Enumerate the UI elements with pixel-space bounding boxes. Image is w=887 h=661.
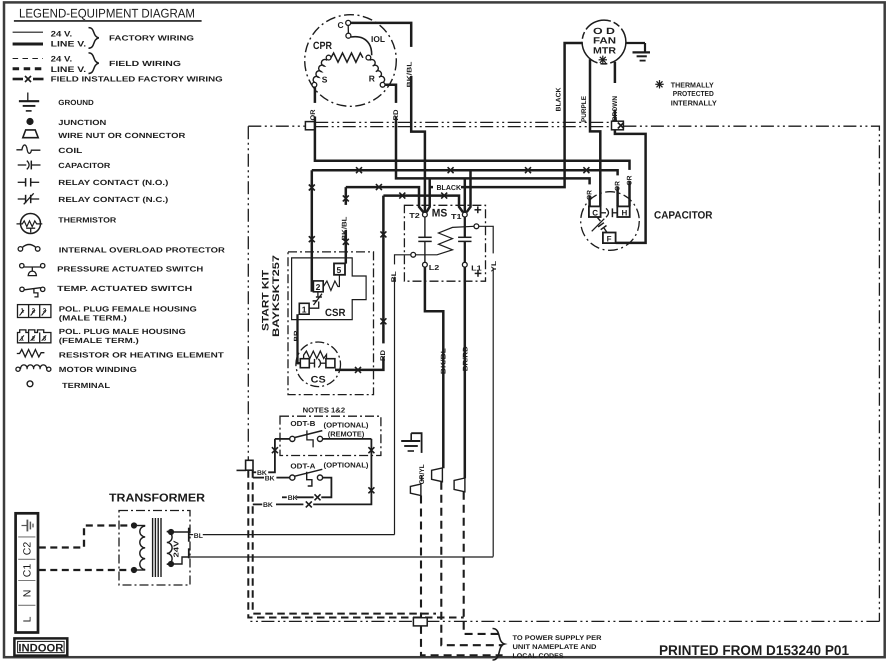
svg-text:TO POWER SUPPLY PER: TO POWER SUPPLY PER — [513, 635, 602, 642]
svg-text:(MALE TERM.): (MALE TERM.) — [59, 314, 128, 323]
svg-text:BK: BK — [265, 475, 275, 482]
svg-text:PURPLE: PURPLE — [581, 96, 588, 122]
svg-text:(REMOTE): (REMOTE) — [328, 429, 365, 438]
svg-text:THERMISTOR: THERMISTOR — [58, 215, 117, 224]
svg-text:24 V.: 24 V. — [51, 55, 72, 64]
svg-text:L2: L2 — [429, 263, 440, 272]
svg-text:FIELD WIRING: FIELD WIRING — [109, 59, 181, 68]
svg-text:2: 2 — [316, 282, 321, 292]
svg-text:BLACK: BLACK — [556, 87, 563, 111]
svg-text:BK/BL: BK/BL — [342, 217, 349, 241]
svg-text:GR/YL: GR/YL — [419, 464, 426, 484]
svg-text:COIL: COIL — [58, 146, 83, 155]
svg-text:FACTORY WIRING: FACTORY WIRING — [109, 33, 194, 42]
svg-text:MS: MS — [432, 208, 448, 220]
svg-text:PROTECTED: PROTECTED — [673, 89, 714, 98]
svg-text:2: 2 — [32, 335, 36, 342]
svg-text:N: N — [22, 590, 34, 598]
svg-text:PRESSURE ACTUATED SWITCH: PRESSURE ACTUATED SWITCH — [57, 265, 203, 274]
svg-text:(FEMALE TERM.): (FEMALE TERM.) — [59, 336, 140, 345]
svg-text:FIELD INSTALLED FACTORY WIRING: FIELD INSTALLED FACTORY WIRING — [51, 75, 223, 84]
svg-text:CPR: CPR — [313, 40, 332, 52]
svg-text:CAPACITOR: CAPACITOR — [654, 210, 713, 222]
svg-text:ODT-B: ODT-B — [290, 419, 315, 428]
svg-text:BL: BL — [391, 271, 398, 282]
svg-text:BK: BK — [263, 502, 273, 509]
svg-text:TERMINAL: TERMINAL — [62, 381, 111, 390]
svg-text:S: S — [322, 75, 328, 85]
svg-text:24V: 24V — [171, 540, 180, 557]
svg-text:UNIT NAMEPLATE AND: UNIT NAMEPLATE AND — [513, 644, 597, 651]
svg-text:OR: OR — [614, 181, 621, 191]
svg-text:(OPTIONAL): (OPTIONAL) — [324, 461, 370, 470]
svg-text:3: 3 — [43, 335, 47, 342]
svg-text:CS: CS — [311, 375, 326, 386]
svg-text:OR: OR — [626, 175, 633, 185]
svg-text:THERMALLY: THERMALLY — [671, 80, 714, 89]
svg-text:C: C — [592, 208, 598, 217]
svg-text:MTR: MTR — [593, 45, 617, 55]
svg-text:ODT-A: ODT-A — [290, 461, 315, 470]
svg-text:LEGEND-EQUIPMENT DIAGRAM: LEGEND-EQUIPMENT DIAGRAM — [19, 7, 195, 21]
svg-text:1: 1 — [21, 335, 25, 342]
svg-text:L1: L1 — [471, 264, 482, 273]
svg-text:1: 1 — [21, 307, 25, 314]
svg-text:CSR: CSR — [325, 307, 346, 319]
svg-text:RD: RD — [380, 350, 387, 361]
svg-text:C2: C2 — [22, 542, 34, 556]
svg-text:C1: C1 — [22, 564, 34, 578]
svg-text:FAN: FAN — [593, 36, 616, 46]
svg-text:R: R — [369, 74, 375, 84]
svg-text:3: 3 — [43, 307, 47, 314]
svg-text:GROUND: GROUND — [58, 98, 94, 107]
svg-text:OR: OR — [586, 190, 593, 200]
svg-text:24 V.: 24 V. — [51, 30, 72, 39]
svg-text:PRINTED FROM D153240 P01: PRINTED FROM D153240 P01 — [659, 642, 849, 658]
svg-text:RD: RD — [393, 109, 400, 120]
svg-text:INTERNAL OVERLOAD PROTECTOR: INTERNAL OVERLOAD PROTECTOR — [59, 246, 226, 255]
svg-text:BLACK: BLACK — [437, 183, 462, 192]
svg-text:YL: YL — [491, 261, 498, 272]
svg-text:BROWN: BROWN — [612, 96, 619, 121]
svg-text:POL. PLUG MALE HOUSING: POL. PLUG MALE HOUSING — [59, 327, 186, 336]
svg-text:H: H — [622, 208, 628, 217]
svg-text:OR: OR — [310, 109, 317, 120]
svg-text:LINE V.: LINE V. — [51, 65, 86, 74]
svg-text:T2: T2 — [409, 211, 420, 220]
svg-text:BAYKSKT257: BAYKSKT257 — [271, 255, 282, 337]
svg-text:RESISTOR OR HEATING ELEMENT: RESISTOR OR HEATING ELEMENT — [59, 351, 225, 360]
svg-text:TEMP. ACTUATED SWITCH: TEMP. ACTUATED SWITCH — [57, 284, 192, 293]
svg-text:INDOOR: INDOOR — [18, 643, 63, 655]
svg-text:2: 2 — [32, 307, 36, 314]
svg-text:LOCAL CODES: LOCAL CODES — [513, 653, 564, 660]
svg-text:BL: BL — [194, 533, 203, 540]
svg-text:5: 5 — [337, 265, 342, 275]
svg-text:START KIT: START KIT — [260, 270, 271, 331]
svg-text:L: L — [22, 616, 34, 622]
svg-text:MOTOR WINDING: MOTOR WINDING — [59, 365, 137, 374]
svg-text:IOL: IOL — [371, 34, 385, 44]
svg-text:(OPTIONAL): (OPTIONAL) — [324, 421, 370, 430]
svg-text:WIRE NUT OR CONNECTOR: WIRE NUT OR CONNECTOR — [58, 131, 186, 140]
svg-text:O D: O D — [593, 26, 616, 36]
svg-text:JUNCTION: JUNCTION — [58, 118, 106, 127]
svg-text:CAPACITOR: CAPACITOR — [58, 161, 111, 170]
svg-text:INTERNALLY: INTERNALLY — [671, 98, 717, 107]
svg-text:POL. PLUG FEMALE HOUSING: POL. PLUG FEMALE HOUSING — [59, 305, 197, 314]
svg-text:F: F — [607, 234, 612, 243]
svg-text:LINE V.: LINE V. — [51, 40, 86, 49]
svg-text:RELAY CONTACT (N.O.): RELAY CONTACT (N.O.) — [58, 178, 169, 187]
svg-text:C: C — [338, 20, 344, 30]
svg-text:TRANSFORMER: TRANSFORMER — [109, 493, 206, 505]
svg-text:1: 1 — [302, 304, 307, 314]
svg-text:BK: BK — [288, 495, 298, 502]
svg-text:T1: T1 — [451, 212, 462, 221]
svg-text:BK/BL: BK/BL — [406, 62, 413, 88]
svg-text:NOTES 1&2: NOTES 1&2 — [303, 406, 346, 415]
svg-text:RELAY CONTACT (N.C.): RELAY CONTACT (N.C.) — [58, 195, 169, 204]
